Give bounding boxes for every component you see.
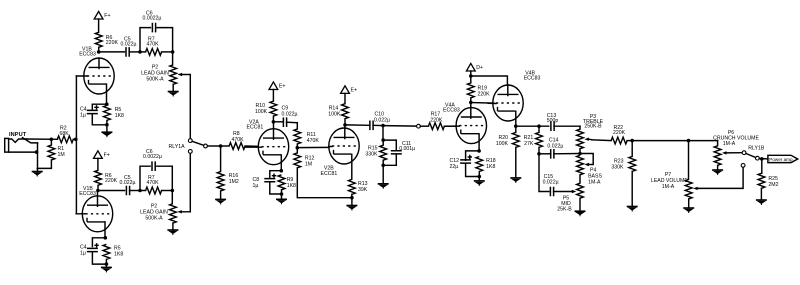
ground (V2A cathode)	[276, 194, 287, 204]
pot P3 TREBLE	[577, 114, 604, 154]
wire C14 node down to C15	[539, 154, 549, 192]
wire V4A plate to V4B grid	[472, 102, 494, 105]
resistor R23	[611, 141, 635, 207]
input jack J1	[5, 138, 38, 172]
node (cathode top)	[105, 102, 109, 106]
triode V2B	[321, 125, 360, 179]
svg-text:1K8: 1K8	[115, 113, 124, 119]
resistor R12	[294, 148, 352, 198]
node (grid branch)	[74, 138, 78, 142]
svg-text:D+: D+	[476, 65, 483, 71]
node (C5/R7/C6)	[138, 50, 142, 54]
svg-text:220K: 220K	[613, 130, 626, 136]
node (C14 left)	[537, 152, 541, 156]
svg-text:100K: 100K	[255, 109, 268, 115]
svg-text:INPUT: INPUT	[9, 132, 27, 138]
resistor R5 (bottom cathode)	[103, 244, 123, 264]
capacitor C12 (V4A cathode)	[450, 151, 480, 177]
svg-text:39K: 39K	[358, 187, 368, 193]
svg-text:0.0022µ: 0.0022µ	[143, 16, 162, 22]
wire junction to V2B grid	[299, 146, 329, 148]
svg-text:330K: 330K	[611, 164, 624, 170]
wire lower contact to P7 wiper	[698, 167, 744, 188]
svg-text:470K: 470K	[232, 137, 245, 143]
svg-text:2M2: 2M2	[768, 182, 778, 188]
capacitor C11 (parallel)	[383, 140, 415, 165]
resistor R5 (top cathode)	[104, 105, 125, 124]
svg-text:ECC81: ECC81	[321, 171, 338, 177]
ground (R20)	[510, 178, 521, 183]
svg-text:RLY1A: RLY1A	[169, 144, 186, 150]
node (R15 top)	[381, 138, 385, 142]
pot P5 MID	[557, 183, 583, 213]
node (R16 top)	[219, 144, 223, 148]
wire to top and bottom grids	[75, 76, 77, 214]
pot P2 LEAD GAIN (bottom)	[140, 153, 190, 230]
resistor R10	[255, 101, 277, 122]
resistor R19	[467, 83, 490, 103]
triode V4A	[443, 102, 486, 150]
wire input to R2	[27, 138, 58, 140]
capacitor C4 (bottom cathode)	[80, 238, 106, 264]
power amp flag	[768, 155, 798, 162]
ground (V4A cathode)	[474, 177, 485, 186]
svg-text:330K: 330K	[365, 152, 378, 158]
node (V4A cathode top)	[477, 149, 481, 153]
resistor R13	[348, 179, 367, 197]
node (R7 out)	[171, 50, 175, 54]
node (V2A cathode top)	[280, 169, 284, 173]
node (V2A cathode bottom)	[280, 192, 284, 196]
resistor R9	[278, 175, 296, 194]
svg-text:1K8: 1K8	[486, 164, 495, 170]
ground (P6)	[712, 170, 723, 175]
capacitor C9	[275, 106, 298, 127]
node (R21 top)	[537, 124, 541, 128]
capacitor C6 (top, parallel loop)	[140, 11, 173, 52]
pot P2 LEAD GAIN (top)	[141, 52, 190, 138]
ground (input jack)	[32, 172, 43, 177]
svg-text:1M: 1M	[58, 152, 65, 158]
svg-text:1µ: 1µ	[80, 251, 86, 257]
ground (R15)	[378, 165, 389, 189]
relay RLY1A	[169, 139, 208, 154]
resistor R16	[217, 146, 239, 199]
ground (R23)	[627, 207, 638, 212]
supply F+ (bottom)	[94, 151, 110, 171]
supply E+ (V2B)	[341, 86, 357, 104]
svg-text:1K8: 1K8	[287, 183, 296, 189]
svg-text:22µ: 22µ	[450, 164, 459, 170]
resistor R7 (bottom)	[140, 175, 172, 194]
svg-text:100K: 100K	[496, 141, 509, 147]
svg-text:0.022µ: 0.022µ	[374, 117, 390, 123]
resistor R21	[524, 126, 543, 154]
svg-text:1M-A: 1M-A	[662, 184, 675, 190]
node (R22 out)	[630, 139, 634, 143]
node (jack sleeve)	[35, 150, 39, 154]
capacitor C8 (V2A cathode)	[253, 171, 282, 194]
node (V4A cathode bottom)	[478, 175, 482, 179]
svg-text:1M: 1M	[305, 161, 312, 167]
svg-text:ECC83: ECC83	[524, 75, 541, 81]
svg-text:27K: 27K	[524, 141, 534, 147]
capacitor C14	[539, 138, 580, 159]
wire treble wiper to R22	[592, 139, 611, 142]
pot P4 BASS	[577, 154, 603, 186]
svg-text:0.022µ: 0.022µ	[547, 144, 563, 150]
svg-text:ECC83: ECC83	[443, 108, 460, 114]
svg-text:1K8: 1K8	[114, 252, 123, 258]
node (V4B cathode)	[514, 124, 518, 128]
svg-text:500K-A: 500K-A	[146, 76, 164, 82]
svg-text:E+: E+	[351, 88, 358, 94]
svg-text:1M-A: 1M-A	[723, 141, 736, 147]
svg-text:470K: 470K	[307, 138, 320, 144]
capacitor C13	[547, 113, 580, 131]
triode V2A	[245, 120, 289, 171]
svg-text:100K: 100K	[328, 111, 341, 117]
wire C10 junction to connector	[385, 125, 417, 128]
ground (P2 top)	[168, 92, 179, 97]
wire plate to C5 (bottom)	[99, 190, 124, 192]
ground (R16)	[215, 199, 226, 204]
triode V4B	[488, 70, 540, 126]
svg-text:68K: 68K	[60, 131, 70, 137]
node (cathode bottom)	[105, 123, 109, 127]
svg-text:CRUNCH VOLUME: CRUNCH VOLUME	[713, 136, 759, 142]
svg-text:25K-B: 25K-B	[557, 207, 572, 213]
resistor R15	[365, 140, 386, 165]
node (cathode b bottom)	[105, 262, 109, 266]
capacitor C10	[347, 111, 390, 130]
node (V2A plate)	[272, 120, 276, 124]
svg-text:F+: F+	[104, 13, 110, 19]
node (R13 bottom)	[350, 196, 354, 200]
svg-text:220K: 220K	[478, 91, 491, 97]
svg-text:F+: F+	[104, 153, 110, 159]
node (C10 out)	[381, 124, 385, 128]
svg-text:220K: 220K	[106, 40, 119, 46]
wire pole to R8	[207, 145, 220, 147]
resistor R7 (top)	[140, 37, 173, 56]
resistor R11	[294, 123, 319, 148]
resistor R17	[420, 112, 456, 130]
resistor R6 (top)	[95, 32, 118, 52]
node (C5b/R7b/C6b)	[138, 189, 142, 193]
svg-text:500K-A: 500K-A	[145, 216, 163, 222]
svg-text:500p: 500p	[547, 118, 559, 124]
node (V2B plate)	[343, 123, 347, 127]
svg-text:1M-A: 1M-A	[588, 180, 601, 186]
svg-text:250K-B: 250K-B	[584, 124, 602, 130]
node (treble bottom)	[578, 152, 582, 156]
resistor R8	[221, 131, 259, 150]
relay RLY1B	[741, 145, 765, 167]
svg-text:ECC83: ECC83	[79, 51, 96, 57]
svg-text:220K: 220K	[105, 178, 118, 184]
svg-text:Power amp: Power amp	[769, 157, 793, 162]
resistor R6 (bottom)	[95, 170, 118, 190]
capacitor C5 (bottom)	[120, 175, 141, 195]
resistor R20	[496, 126, 519, 177]
resistor R18	[476, 157, 496, 177]
node (V1 top plate)	[97, 50, 101, 54]
svg-text:220K: 220K	[430, 118, 443, 124]
node (R15 bottom)	[381, 164, 385, 168]
resistor R22	[611, 125, 632, 144]
supply E+ (V2A)	[269, 82, 285, 101]
capacitor C6 (bottom, parallel loop)	[140, 149, 172, 191]
resistor R25	[758, 159, 779, 200]
node (cathode b top)	[104, 236, 108, 240]
wire C10 junction down	[382, 126, 384, 141]
resistor R2	[57, 125, 76, 142]
resistor R14	[328, 104, 348, 125]
svg-text:RLY1B: RLY1B	[748, 145, 765, 151]
svg-text:0.0022µ: 0.0022µ	[143, 154, 162, 160]
pot P7 LEAD VOLUME	[651, 141, 699, 208]
svg-text:ECC83: ECC83	[79, 191, 96, 197]
wire plate to C5 (top)	[100, 51, 124, 53]
capacitor C5 (top)	[121, 37, 141, 57]
svg-text:0.022µ: 0.022µ	[121, 42, 137, 48]
svg-text:ECC81: ECC81	[247, 125, 264, 131]
ground (P5)	[575, 211, 586, 216]
supply D+	[466, 63, 483, 83]
triode V1B (bottom)	[76, 186, 113, 238]
ground (P2 bottom)	[167, 230, 178, 235]
wire R22 to P6	[634, 140, 718, 142]
svg-text:1M2: 1M2	[229, 179, 239, 185]
svg-text:0.001µ: 0.001µ	[399, 146, 415, 152]
pot P6 CRUNCH VOLUME	[713, 130, 759, 170]
node (V1 bottom plate)	[96, 189, 100, 193]
wire pole to flag	[759, 158, 768, 160]
ground (V1 bottom cathode)	[101, 264, 112, 272]
svg-text:1µ: 1µ	[80, 113, 86, 119]
triode V1B (top)	[76, 47, 114, 105]
node (R11/R12 junction)	[296, 146, 300, 150]
node (V4A plate / V4B grid)	[469, 101, 473, 105]
svg-text:470K: 470K	[147, 180, 160, 186]
capacitor C4 (top cathode)	[80, 104, 107, 125]
node (R7b out)	[171, 189, 175, 193]
capacitor C15	[543, 174, 573, 196]
node (D+ rail)	[469, 74, 473, 78]
svg-text:0.022µ: 0.022µ	[543, 180, 559, 186]
node (R25 top)	[760, 157, 764, 161]
supply F+ (top)	[94, 11, 110, 32]
connector node	[417, 124, 421, 128]
wire D+ to V4B plate	[471, 76, 508, 85]
svg-text:470K: 470K	[147, 42, 160, 48]
svg-text:E+: E+	[279, 84, 286, 90]
ground (V1 top cathode)	[101, 125, 112, 137]
node (R1 top)	[50, 138, 54, 142]
svg-text:0.022µ: 0.022µ	[120, 180, 136, 186]
node (P7 branch)	[687, 139, 691, 143]
resistor R1	[37, 139, 65, 168]
ground (R13)	[346, 198, 357, 211]
svg-text:0.022µ: 0.022µ	[282, 112, 298, 118]
ground (R25)	[756, 200, 767, 205]
wire cathode rail to C13	[516, 125, 549, 127]
svg-text:1µ: 1µ	[253, 183, 259, 189]
ground (P7)	[683, 208, 694, 213]
